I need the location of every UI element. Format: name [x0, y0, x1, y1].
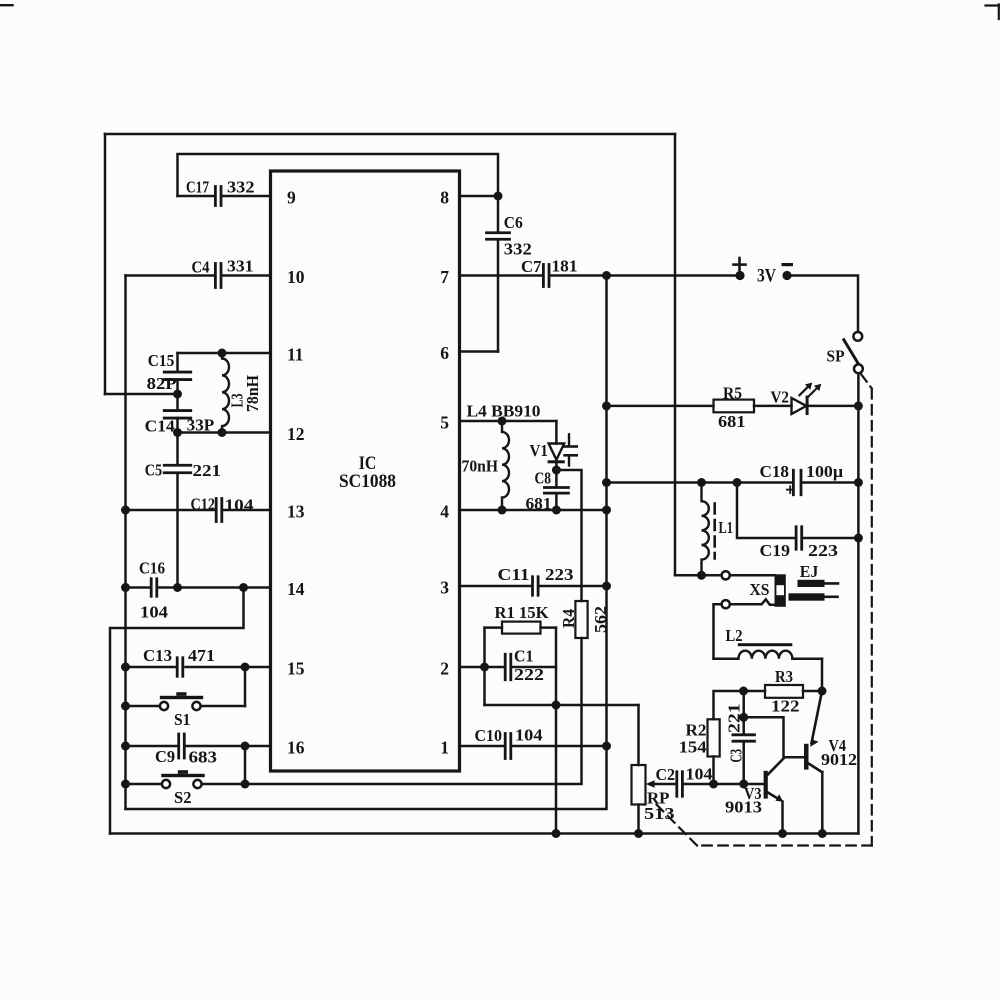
svg-text:16: 16 — [287, 738, 305, 758]
svg-text:6: 6 — [440, 343, 449, 363]
wire left border — [104, 134, 107, 394]
wire pin2 loop to RP — [637, 705, 640, 765]
svg-text:C9: C9 — [155, 747, 175, 766]
wire to battery plus — [607, 274, 741, 277]
wire pin12 — [178, 431, 271, 434]
resistor R4 — [575, 601, 587, 638]
wire battery minus to SP — [787, 276, 858, 332]
svg-text:R5: R5 — [723, 384, 742, 403]
scan mark top-left — [0, 4, 13, 6]
svg-text:2: 2 — [440, 659, 449, 679]
svg-text:223: 223 — [808, 541, 838, 560]
wire right border to XS top contact — [675, 574, 721, 577]
svg-text:100μ: 100μ — [806, 462, 844, 481]
svg-text:R4: R4 — [559, 609, 578, 628]
svg-text:12: 12 — [287, 424, 305, 444]
svg-text:1: 1 — [440, 738, 449, 758]
capacitor C9 — [177, 734, 180, 758]
wire XS bottom contact — [714, 604, 722, 659]
node S2 right — [241, 780, 250, 789]
wire V3 collector to V4 base — [744, 717, 804, 757]
svg-text:104: 104 — [686, 765, 713, 784]
capacitor C19 — [795, 527, 798, 550]
svg-text:7: 7 — [440, 267, 449, 287]
wire left bus vertical — [124, 276, 127, 810]
svg-text:154: 154 — [679, 738, 707, 757]
node pin2 — [480, 663, 489, 672]
svg-text:332: 332 — [227, 177, 255, 196]
wire pin1 / C10 — [460, 745, 504, 748]
node R3 left — [739, 687, 748, 696]
wire C3 top — [742, 691, 745, 734]
node bus C18 row — [602, 478, 611, 487]
node pin3 bus — [602, 582, 611, 591]
node C8 bottom — [552, 506, 561, 515]
svg-text:C13: C13 — [143, 646, 172, 665]
capacitor C6 — [497, 196, 500, 231]
svg-text:11: 11 — [287, 345, 304, 365]
node L3 bottom — [218, 428, 227, 437]
node R3 right / V4 emitter — [818, 687, 827, 696]
scan mark top-right corner — [986, 4, 1000, 6]
capacitor C4 — [214, 264, 217, 288]
svg-text:332: 332 — [504, 239, 532, 258]
svg-text:L2: L2 — [726, 626, 743, 645]
svg-text:C17: C17 — [186, 177, 209, 196]
wire node B to R2 — [714, 691, 744, 719]
svg-text:683: 683 — [189, 747, 218, 766]
wire pin5 — [460, 420, 557, 423]
capacitor C3 — [733, 733, 755, 736]
node V2/SP bus — [854, 401, 863, 410]
node L1 bottom — [697, 571, 706, 580]
node C3 bottom — [739, 780, 748, 789]
wire R3 leads — [744, 690, 766, 693]
svg-text:221: 221 — [725, 703, 744, 733]
node left bus S2 — [121, 780, 130, 789]
node V1/C8 — [552, 466, 561, 475]
wire pin9 — [178, 195, 215, 198]
svg-text:14: 14 — [287, 579, 305, 599]
svg-text:70nH: 70nH — [462, 457, 499, 476]
wire pin15 — [126, 666, 176, 669]
svg-text:V2: V2 — [771, 388, 790, 407]
node V4 collector bottom — [818, 829, 827, 838]
node C1/R1 right — [552, 701, 561, 710]
wire left border to C15/C14 node — [105, 393, 178, 396]
node C15/C14/antenna — [176, 380, 179, 395]
svg-text:78nH: 78nH — [243, 375, 262, 412]
wire feedback row — [485, 704, 639, 707]
svg-text:9: 9 — [287, 188, 296, 208]
wire base line to V3 — [714, 783, 764, 786]
wire pin13 — [126, 509, 216, 512]
L1 core dashed — [713, 504, 716, 559]
node C5/pin14 — [173, 583, 182, 592]
XS jack body — [775, 574, 786, 607]
wire XS top to plug — [730, 574, 775, 577]
wire ground return bottom — [126, 746, 607, 809]
XS bottom contact — [722, 600, 730, 608]
resistor R1 — [502, 622, 541, 634]
svg-text:15: 15 — [287, 659, 305, 679]
svg-text:9013: 9013 — [725, 798, 762, 817]
wire C5 down to pin14 line — [176, 475, 179, 588]
resistor R5 — [714, 400, 755, 413]
wire pin4 — [460, 509, 607, 512]
node pin14 branch — [239, 583, 248, 592]
node pin7 bus — [602, 271, 611, 280]
capacitor C12 — [215, 499, 218, 522]
wire pin16 — [126, 745, 178, 748]
wire S2 to R4 bottom — [245, 638, 582, 784]
varactor V1 — [555, 421, 558, 444]
svg-text:C14: C14 — [145, 417, 175, 436]
svg-text:S1: S1 — [174, 710, 191, 729]
node left bus pin15 — [121, 663, 130, 672]
svg-text:9012: 9012 — [821, 750, 857, 769]
svg-text:SP: SP — [827, 347, 845, 366]
wire V1 to R4 top — [556, 470, 581, 601]
svg-text:R1 15K: R1 15K — [495, 603, 549, 622]
svg-text:EJ: EJ — [800, 562, 819, 581]
svg-text:C15: C15 — [148, 351, 175, 370]
capacitor C8 — [555, 470, 558, 486]
capacitor C15 — [176, 353, 179, 371]
battery 3V minus terminal — [782, 271, 791, 280]
wire RP bottom — [637, 805, 640, 834]
wire supply bus vertical — [605, 276, 608, 747]
svg-text:8: 8 — [440, 188, 449, 208]
svg-text:C12: C12 — [191, 495, 216, 514]
svg-text:R3: R3 — [775, 667, 793, 686]
RP wiper arrow — [651, 783, 675, 786]
svg-text:5: 5 — [440, 413, 449, 433]
svg-text:221: 221 — [193, 461, 222, 480]
wire R1 left leg — [483, 628, 486, 705]
svg-text:IC: IC — [359, 454, 377, 474]
capacitor C14 — [176, 394, 179, 410]
svg-text:C4: C4 — [192, 257, 210, 276]
EJ earphone plug — [798, 580, 825, 587]
svg-text:XS: XS — [750, 580, 770, 599]
svg-text:C2: C2 — [656, 765, 676, 784]
node C19/right bus — [854, 534, 863, 543]
wire R5 row — [607, 405, 714, 408]
dashed linkage RP to SP — [861, 375, 872, 389]
node L1 top — [697, 478, 706, 487]
svg-text:SC1088: SC1088 — [339, 472, 396, 492]
IC U1 SC1088 body — [271, 171, 460, 771]
svg-text:82P: 82P — [147, 374, 177, 393]
potentiometer RP — [632, 765, 646, 805]
wire pin11 — [178, 352, 271, 355]
wire C14 to pin12 — [176, 418, 179, 433]
wire R1 right leg — [555, 628, 558, 834]
node V3 emitter bottom — [778, 829, 787, 838]
inductor L3 — [222, 353, 229, 433]
wire R5 to V2 — [754, 405, 792, 408]
node S1/pin15 — [241, 663, 250, 672]
svg-text:L1: L1 — [719, 518, 734, 537]
svg-text:3: 3 — [440, 578, 449, 598]
svg-text:C10: C10 — [475, 726, 503, 745]
svg-text:C1: C1 — [514, 646, 534, 665]
svg-text:104: 104 — [140, 602, 168, 621]
wire bottom border — [110, 832, 858, 835]
resistor R2 — [708, 719, 720, 756]
wire L2 to R3 node — [821, 659, 824, 691]
inductor L4 BB910 — [502, 421, 509, 510]
capacitor C2 — [675, 772, 678, 797]
svg-text:562: 562 — [591, 606, 610, 633]
svg-text:C18: C18 — [760, 462, 790, 481]
node C3 top — [739, 713, 748, 722]
svg-text:C3: C3 — [727, 749, 746, 763]
svg-text:3V: 3V — [757, 266, 776, 287]
XS top contact — [722, 571, 730, 579]
svg-text:181: 181 — [552, 256, 578, 275]
capacitor C5 — [176, 433, 179, 464]
node C14/pin12 — [173, 428, 182, 437]
svg-text:C11: C11 — [498, 565, 530, 584]
node left bus pin14 — [121, 583, 130, 592]
node L4 bottom — [498, 506, 507, 515]
wire supply row C18 — [607, 481, 794, 484]
svg-text:S2: S2 — [174, 788, 192, 807]
switch SP — [853, 332, 862, 341]
svg-text:222: 222 — [514, 665, 544, 684]
inductor L1 — [702, 483, 709, 577]
wire loop pin9-pin8 over IC — [178, 154, 499, 196]
switch S1 — [126, 705, 160, 708]
wire top border — [105, 133, 675, 136]
switch S2 — [126, 783, 162, 786]
wire pin14 — [126, 586, 150, 589]
wire pin2 — [460, 666, 485, 669]
wire pin3 / C11 — [460, 585, 531, 588]
wire R2 bottom — [712, 757, 715, 784]
capacitor C10 — [504, 734, 507, 759]
node C18/right bus — [854, 478, 863, 487]
svg-text:223: 223 — [545, 565, 574, 584]
node C18/C19 left — [733, 478, 742, 487]
node S2/pin16 — [241, 742, 250, 751]
node left bus pin16 — [121, 742, 130, 751]
node R1 leg bottom line — [552, 829, 561, 838]
wire C6 to pin6 — [497, 240, 500, 352]
battery 3V plus terminal — [735, 271, 744, 280]
V2 arrows — [800, 385, 810, 395]
LED V2 — [792, 398, 807, 414]
node L4 top — [498, 417, 507, 426]
svg-text:C8: C8 — [535, 469, 552, 488]
wire right bus — [857, 373, 860, 833]
svg-text:122: 122 — [771, 697, 800, 716]
transistor V3 9013 — [764, 771, 768, 799]
node pin4 bus — [602, 506, 611, 515]
node pin8/C6 — [494, 192, 503, 201]
svg-text:471: 471 — [188, 646, 215, 665]
svg-text:681: 681 — [718, 412, 746, 431]
svg-text:C6: C6 — [504, 213, 523, 232]
node left bus pin13 — [121, 506, 130, 515]
capacitor C13 — [176, 658, 179, 677]
node pin1 bus — [602, 742, 611, 751]
node R2 bottom / base line — [709, 780, 718, 789]
node bus R5 — [602, 401, 611, 410]
svg-text:V1: V1 — [530, 441, 549, 460]
svg-text:104: 104 — [515, 726, 543, 745]
capacitor C17 — [214, 187, 217, 206]
inductor L2 — [738, 643, 793, 646]
svg-text:C7: C7 — [521, 257, 542, 276]
wire right border down to XS — [674, 134, 677, 575]
svg-text:10: 10 — [287, 267, 305, 287]
wire pin8 — [460, 195, 499, 198]
capacitor C18 electrolytic — [792, 470, 795, 495]
svg-text:C5: C5 — [145, 461, 163, 480]
wire pin10 / C4 left — [126, 274, 215, 277]
capacitor C16 — [150, 579, 153, 597]
svg-text:104: 104 — [225, 495, 254, 514]
node pin11/L3 — [218, 349, 227, 358]
wire bottom-left vertical — [110, 588, 244, 834]
svg-text:331: 331 — [227, 257, 254, 276]
svg-text:C19: C19 — [760, 541, 791, 560]
wire pin7 / C7 left — [460, 274, 543, 277]
capacitor C7 — [542, 265, 545, 287]
svg-text:C16: C16 — [139, 559, 165, 578]
svg-text:4: 4 — [440, 502, 449, 522]
node RP bottom — [634, 829, 643, 838]
svg-text:13: 13 — [287, 502, 305, 522]
node left bus S1 — [121, 702, 130, 711]
capacitor C11 — [531, 577, 534, 596]
resistor R3 — [765, 685, 803, 698]
wire C19 drop — [737, 483, 795, 539]
transistor V4 9012 — [804, 744, 809, 770]
capacitor C1 — [485, 666, 504, 669]
